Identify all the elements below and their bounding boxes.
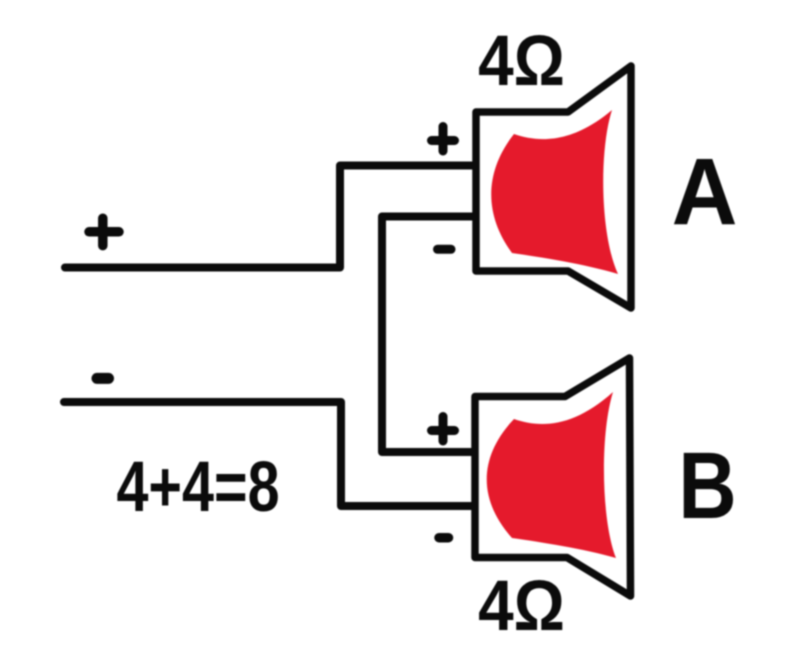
speaker A + terminal mark xyxy=(432,127,455,152)
amplifier + polarity mark xyxy=(89,218,119,245)
speaker A outline (driver box and horn) xyxy=(476,66,631,308)
svg-text:4+4=8: 4+4=8 xyxy=(116,447,279,526)
wire W3: amplifier - lead to speaker B - terminal xyxy=(64,402,476,506)
svg-text:B: B xyxy=(678,432,736,539)
speaker B - terminal mark xyxy=(439,533,449,543)
speaker A cone (red) xyxy=(491,110,618,274)
speaker B + terminal mark xyxy=(432,417,455,442)
svg-text:A: A xyxy=(672,138,738,244)
speaker B cone (red) xyxy=(487,392,616,558)
wire W1: amplifier + lead to speaker A + terminal xyxy=(65,166,476,268)
amplifier - polarity mark xyxy=(97,373,109,384)
speaker B outline (driver box and horn) xyxy=(475,358,631,596)
svg-text:4Ω: 4Ω xyxy=(478,22,565,101)
wire W2: speaker A - terminal to speaker B + terminal (series link) xyxy=(382,217,476,453)
speaker A - terminal mark xyxy=(438,245,452,254)
svg-text:4Ω: 4Ω xyxy=(478,567,565,646)
